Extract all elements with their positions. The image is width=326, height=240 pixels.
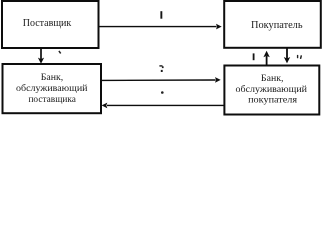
label 6 (two small marks right of down arrow) [297,55,302,59]
label 4 (dot between the two bottom arrows) [161,91,164,94]
arrow 3: supplier bank to buyer bank (right-pointing) [101,77,221,83]
arrow 6: buyer down to buyer bank (right side, down) [284,49,290,64]
svg-text:обслуживающий: обслуживающий [236,84,308,95]
box buyer (Покупатель) [224,1,321,48]
svg-text:обслуживающий: обслуживающий [16,83,88,94]
box supplier bank (Банк, обслуживающий поставщика) [3,64,102,113]
box buyer bank (Банк, обслуживающий покупателя) [224,66,319,115]
svg-text:Банк,: Банк, [261,73,284,84]
label 2 [59,51,61,54]
arrow 4: buyer bank back to supplier bank (left-pointing) [102,103,224,109]
box supplier (Поставщик) [2,1,99,48]
arrow 2: supplier down to supplier bank (left vertical) [38,48,44,64]
svg-text:Покупатель: Покупатель [251,19,303,31]
arrow 5: buyer bank up to buyer (right side, up) [263,51,269,66]
svg-text:покупателя: покупателя [248,94,298,105]
label 3 [159,65,163,72]
label 1 [160,11,162,19]
arrow 1: supplier to buyer (top horizontal) [99,24,222,30]
svg-text:поставщика: поставщика [28,94,76,105]
label 5 (bar left of up arrow) [253,53,255,60]
svg-text:Банк,: Банк, [41,72,64,83]
svg-text:Поставщик: Поставщик [23,17,72,29]
